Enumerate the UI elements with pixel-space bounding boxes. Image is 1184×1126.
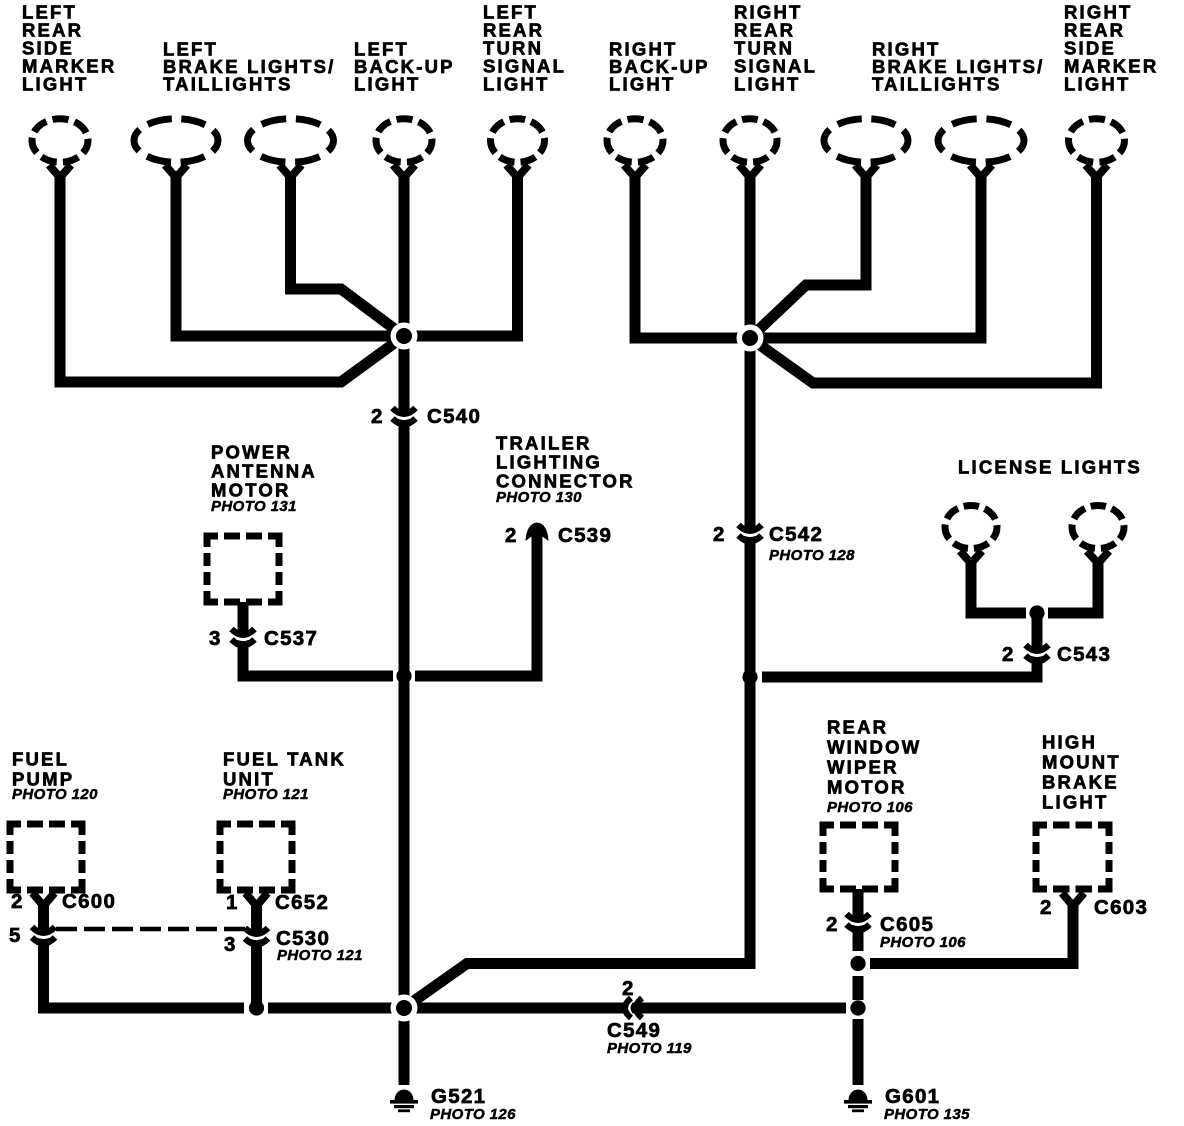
label C603 with pin 2 bbox=[1040, 896, 1148, 919]
lamp right brake/taillight 1 bulb bbox=[824, 119, 908, 163]
svg-text:MOTOR: MOTOR bbox=[827, 777, 907, 798]
junction dot junction license lights bbox=[1029, 605, 1044, 620]
svg-text:2: 2 bbox=[1002, 643, 1015, 666]
label C652 with pin 1 bbox=[226, 891, 329, 914]
label C549 bbox=[607, 1019, 661, 1042]
label G601 bbox=[885, 1085, 940, 1108]
lamp left rear side marker light bulb bbox=[32, 119, 88, 163]
lamp left rear turn signal light terminal fork bbox=[507, 165, 529, 178]
label REAR WINDOW WIPER MOTOR bbox=[827, 717, 921, 798]
label C600 with pin 2 bbox=[11, 890, 116, 913]
wire bottom run from fuel tank junction to G601 dot (via node G and C549) bbox=[268, 1003, 846, 1014]
junction node node G (above ground G521) (ringed) bbox=[391, 995, 418, 1022]
inline connector symbol C543 bbox=[1025, 645, 1049, 661]
inline connector symbol C549 bbox=[625, 997, 642, 1019]
junction dot junction left trunk / antenna / trailer bbox=[396, 668, 411, 683]
junction dot junction wiper / bottom run bbox=[850, 1000, 865, 1015]
label HIGH MOUNT BRAKE LIGHT bbox=[1042, 732, 1121, 813]
wire fuel pump lead down and right along bottom bbox=[44, 903, 245, 1008]
svg-text:PHOTO 121: PHOTO 121 bbox=[277, 947, 363, 964]
label C537 with pin 3 bbox=[209, 627, 318, 650]
svg-text:C605: C605 bbox=[880, 913, 934, 936]
wire junction to trailer lighting connector C539 bbox=[415, 534, 537, 676]
inline connector symbol C542 bbox=[738, 525, 762, 541]
svg-text:ANTENNA: ANTENNA bbox=[211, 461, 317, 482]
svg-text:LIGHTING: LIGHTING bbox=[496, 452, 602, 473]
svg-text:TAILLIGHTS: TAILLIGHTS bbox=[163, 74, 293, 95]
lamp right brake/taillight 2 terminal fork bbox=[970, 165, 992, 178]
label C605 with pin 2 bbox=[826, 913, 934, 936]
svg-text:G601: G601 bbox=[885, 1085, 940, 1108]
svg-text:PHOTO 130: PHOTO 130 bbox=[496, 489, 582, 506]
svg-text:2: 2 bbox=[1040, 896, 1053, 919]
svg-text:PHOTO 106: PHOTO 106 bbox=[827, 799, 913, 816]
svg-text:2: 2 bbox=[713, 523, 726, 546]
svg-text:2: 2 bbox=[505, 524, 518, 547]
svg-text:MOUNT: MOUNT bbox=[1042, 752, 1121, 773]
connector fork C603 bbox=[1062, 893, 1084, 906]
lamp left brake/taillight 1 terminal fork bbox=[165, 165, 187, 178]
svg-text:2: 2 bbox=[622, 977, 635, 1000]
label C540 with pin 2 bbox=[371, 405, 481, 428]
svg-text:C600: C600 bbox=[62, 890, 116, 913]
inline connector symbol C540 bbox=[392, 408, 416, 424]
svg-text:HIGH: HIGH bbox=[1042, 732, 1097, 753]
wire right trunk: turn signal down to corner and diagonal to node G bbox=[404, 172, 750, 1008]
svg-text:REAR: REAR bbox=[827, 717, 888, 738]
svg-text:TRAILER: TRAILER bbox=[496, 433, 592, 454]
wire wiper lead between junctions bbox=[853, 976, 864, 1000]
lamp left brake/taillight 1 bulb bbox=[134, 119, 218, 163]
lamp left rear turn signal light bulb bbox=[491, 119, 545, 163]
junction dot junction wiper / high mount brake light bbox=[850, 956, 865, 971]
lamp left brake/taillight 2 terminal fork bbox=[280, 165, 302, 178]
wire left back-up light trunk (node A, C540, to junction) bbox=[399, 172, 410, 676]
lamp right brake/taillight 1 terminal fork bbox=[855, 165, 877, 178]
component box rear window wiper motor (dashed) bbox=[823, 825, 895, 889]
svg-text:3: 3 bbox=[209, 627, 222, 650]
wire left rear turn signal light to node A bbox=[404, 172, 518, 336]
wire wiper junction to high mount brake light bbox=[870, 906, 1073, 964]
wire left rear side marker light to node A bbox=[60, 172, 404, 382]
svg-text:C549: C549 bbox=[607, 1019, 661, 1042]
junction node node A (left lamp fan-in) (ringed) bbox=[391, 323, 418, 350]
label C549 with pin 2 bbox=[622, 977, 635, 1000]
label LEFT REAR TURN SIGNAL LIGHT bbox=[483, 2, 566, 95]
svg-text:TAILLIGHTS: TAILLIGHTS bbox=[872, 74, 1002, 95]
svg-text:BRAKE: BRAKE bbox=[1042, 772, 1119, 793]
wire license light right lead bbox=[1048, 558, 1098, 613]
svg-text:WINDOW: WINDOW bbox=[827, 737, 921, 758]
wire left brake/taillight 1 to node A bbox=[176, 172, 404, 336]
label RIGHT BACK-UP LIGHT bbox=[609, 39, 710, 95]
wire fuel tank unit lead down to junction bbox=[251, 903, 262, 1008]
wire left brake/taillight 2 to node A bbox=[291, 172, 405, 336]
svg-text:FUEL: FUEL bbox=[12, 749, 69, 770]
svg-text:PHOTO 126: PHOTO 126 bbox=[430, 1106, 516, 1123]
lamp license light left bulb bbox=[945, 506, 997, 549]
svg-text:2: 2 bbox=[826, 913, 839, 936]
component box high mount brake light (dashed) bbox=[1036, 825, 1109, 889]
svg-text:WIPER: WIPER bbox=[827, 757, 899, 778]
wire power antenna motor lead via C537 to junction bbox=[243, 602, 393, 676]
svg-text:LICENSE LIGHTS: LICENSE LIGHTS bbox=[958, 457, 1142, 478]
component box power antenna motor (dashed) bbox=[207, 536, 279, 602]
lamp right back-up light terminal fork bbox=[624, 165, 646, 178]
lamp license light right bulb bbox=[1072, 506, 1124, 549]
lamp right rear turn signal light terminal fork bbox=[739, 165, 761, 178]
svg-text:C543: C543 bbox=[1057, 643, 1111, 666]
svg-text:PHOTO 128: PHOTO 128 bbox=[769, 547, 855, 564]
component box fuel pump (dashed) bbox=[10, 824, 82, 890]
svg-text:C540: C540 bbox=[427, 405, 481, 428]
junction dot junction fuel tank / bottom run bbox=[249, 1000, 264, 1015]
svg-text:LIGHT: LIGHT bbox=[1064, 74, 1131, 95]
svg-text:C603: C603 bbox=[1094, 896, 1148, 919]
label C539 with pin 2 bbox=[505, 524, 612, 547]
svg-text:C652: C652 bbox=[275, 891, 329, 914]
lamp left brake/taillight 2 bulb bbox=[248, 119, 334, 163]
svg-text:G521: G521 bbox=[431, 1085, 486, 1108]
lamp right rear side marker light terminal fork bbox=[1086, 165, 1108, 178]
junction dot junction right trunk / license lights bbox=[742, 669, 757, 684]
wire right back-up light to node B bbox=[635, 172, 750, 338]
wire rear wiper motor lead segment above junction bbox=[853, 889, 864, 951]
wire dashed link fuel pump pin 5 to fuel tank pin 3 bbox=[56, 927, 246, 932]
svg-text:3: 3 bbox=[224, 933, 237, 956]
svg-text:PHOTO 121: PHOTO 121 bbox=[223, 786, 309, 803]
wire license junction down via C543 to right-trunk junction bbox=[762, 610, 1037, 677]
inline connector symbol C530 bbox=[245, 928, 269, 944]
junction node node B (right lamp fan-in) (ringed) bbox=[737, 325, 764, 352]
lamp left back-up light terminal fork bbox=[393, 165, 415, 178]
label fuel pump pin 5 bbox=[9, 924, 22, 947]
svg-text:C542: C542 bbox=[769, 523, 823, 546]
label RIGHT REAR TURN SIGNAL LIGHT bbox=[734, 2, 817, 95]
svg-text:LIGHT: LIGHT bbox=[609, 74, 676, 95]
label LEFT BRAKE LIGHTS/TAILLIGHTS bbox=[163, 39, 336, 95]
svg-text:C539: C539 bbox=[558, 524, 612, 547]
svg-text:PHOTO 120: PHOTO 120 bbox=[12, 786, 98, 803]
wire license light left lead bbox=[971, 558, 1026, 613]
svg-text:PHOTO 131: PHOTO 131 bbox=[211, 498, 297, 515]
label TRAILER LIGHTING CONNECTOR bbox=[496, 433, 635, 492]
svg-text:LIGHT: LIGHT bbox=[483, 74, 550, 95]
lamp left rear side marker light terminal fork bbox=[49, 165, 71, 178]
label FUEL TANK UNIT bbox=[223, 749, 346, 790]
svg-text:C537: C537 bbox=[264, 627, 318, 650]
svg-text:LIGHT: LIGHT bbox=[354, 74, 421, 95]
lamp right rear side marker light bulb bbox=[1069, 119, 1125, 163]
label C543 with pin 2 bbox=[1002, 643, 1111, 666]
lamp right back-up light bulb bbox=[607, 119, 663, 163]
wire right brake/taillight 2 to node B bbox=[750, 172, 981, 338]
label FUEL PUMP bbox=[12, 749, 74, 790]
ground symbol G601 bbox=[844, 1090, 872, 1113]
svg-text:LIGHT: LIGHT bbox=[22, 74, 89, 95]
label LEFT REAR SIDE MARKER LIGHT bbox=[22, 2, 116, 95]
connector C539 terminal pin (arrow up) bbox=[526, 523, 549, 542]
svg-text:2: 2 bbox=[11, 890, 24, 913]
label LEFT BACK-UP LIGHT bbox=[354, 39, 455, 95]
svg-text:LIGHT: LIGHT bbox=[734, 74, 801, 95]
svg-text:PHOTO 106: PHOTO 106 bbox=[880, 934, 966, 951]
wire right rear side marker light to node B bbox=[750, 172, 1097, 383]
svg-text:PHOTO 135: PHOTO 135 bbox=[884, 1106, 970, 1123]
wire right brake/taillight 1 to node B bbox=[750, 172, 866, 338]
wire wiper lead down to G601 bbox=[853, 1019, 864, 1085]
label RIGHT REAR SIDE MARKER LIGHT bbox=[1064, 2, 1158, 95]
component box fuel tank unit (dashed) bbox=[220, 824, 292, 890]
lamp license light left terminal fork bbox=[960, 551, 982, 564]
svg-text:5: 5 bbox=[9, 924, 22, 947]
inline connector symbol fuel pump pin 5 connector bbox=[32, 927, 56, 943]
label LICENSE LIGHTS bbox=[958, 457, 1142, 478]
lamp license light right terminal fork bbox=[1087, 551, 1109, 564]
wire left trunk: junction down through node G to G521 bbox=[399, 676, 410, 1085]
svg-text:PHOTO 119: PHOTO 119 bbox=[607, 1040, 692, 1057]
label RIGHT BRAKE LIGHTS/TAILLIGHTS bbox=[872, 39, 1045, 95]
connector fork C600 bbox=[33, 893, 55, 906]
connector fork C652 bbox=[246, 893, 268, 906]
svg-text:1: 1 bbox=[226, 891, 239, 914]
lamp right rear turn signal light bulb bbox=[723, 119, 777, 163]
inline connector symbol C537 bbox=[231, 629, 255, 645]
svg-text:2: 2 bbox=[371, 405, 384, 428]
ground symbol G521 bbox=[390, 1090, 418, 1113]
svg-text:LIGHT: LIGHT bbox=[1042, 792, 1109, 813]
inline connector symbol C605 bbox=[846, 914, 870, 930]
label G521 bbox=[431, 1085, 486, 1108]
label POWER ANTENNA MOTOR bbox=[211, 442, 317, 501]
svg-text:POWER: POWER bbox=[211, 442, 292, 463]
label C542 with pin 2 bbox=[713, 523, 823, 546]
lamp right brake/taillight 2 bulb bbox=[938, 119, 1024, 163]
svg-text:FUEL TANK: FUEL TANK bbox=[223, 749, 346, 770]
lamp left back-up light bulb bbox=[376, 119, 432, 163]
label C530 with pin 3 bbox=[224, 927, 330, 956]
